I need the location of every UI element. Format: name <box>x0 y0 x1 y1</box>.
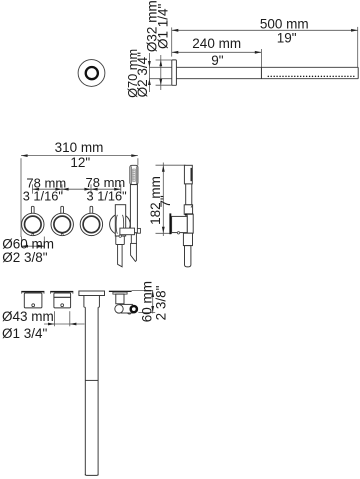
svg-text:12": 12" <box>70 155 90 170</box>
wand handle side upper <box>186 184 192 205</box>
wall plate side <box>169 213 171 234</box>
holder bottom screw bump <box>119 235 121 237</box>
wand chamfer line side <box>191 205 193 208</box>
wand spray tip front <box>131 243 137 261</box>
holder inner arcs <box>116 215 117 234</box>
78mm chain dimension line <box>33 188 121 190</box>
holder hose connector front <box>118 245 123 267</box>
extension line left (500/240 shared) <box>171 27 173 56</box>
shower arm tube <box>176 66 358 68</box>
svg-text:310 mm: 310 mm <box>55 140 104 155</box>
valve 1 flange bottom view <box>21 291 44 293</box>
wand mid section side <box>184 205 192 215</box>
svg-text:3 1/16": 3 1/16" <box>23 188 63 203</box>
tube section divider <box>260 67 262 78</box>
knob 3 inner circle <box>83 216 100 233</box>
wand handle front <box>130 185 137 233</box>
spout tube long <box>84 307 86 475</box>
dimension line 310 mm <box>21 155 138 157</box>
dia43 dimension line <box>44 323 85 325</box>
tube end cap <box>357 67 359 78</box>
valve 2 body <box>54 293 71 308</box>
holder screw bump side <box>177 232 179 234</box>
holder arm bottom view <box>120 303 134 305</box>
60mm extension line top <box>132 289 153 291</box>
holder collar bottom view <box>113 292 127 294</box>
dimension line 240 mm <box>172 51 262 53</box>
182 dimension line <box>162 163 164 237</box>
valve 2 joint line <box>54 296 71 298</box>
wand strip behind holder <box>187 214 193 233</box>
wand head spray texture <box>132 169 135 182</box>
valve 2 screw dot <box>61 304 64 307</box>
svg-text:9": 9" <box>211 53 224 68</box>
valve 2 flange bottom view <box>50 291 73 293</box>
wand head side face line <box>190 168 192 181</box>
dimension line 500 mm <box>172 29 358 31</box>
spout tube joint <box>85 379 98 381</box>
78mm arrows <box>33 188 40 191</box>
holder ball joint <box>115 305 123 313</box>
knob 2 pin <box>61 234 63 236</box>
spout flange top view <box>79 291 105 296</box>
knob 3 outer circle <box>80 213 102 235</box>
svg-text:240 mm: 240 mm <box>192 36 241 51</box>
knob 2 inner circle <box>54 216 71 233</box>
hook thick line side <box>185 213 193 215</box>
handshower wand head front <box>130 165 138 184</box>
spout tube end <box>85 474 98 475</box>
knob 2 outer circle <box>51 213 73 235</box>
holder stem bottom view <box>116 294 124 304</box>
svg-text:Ø43 mm: Ø43 mm <box>2 309 54 324</box>
shower arm wall flange side view <box>172 60 177 85</box>
knob 1 pin <box>32 234 34 236</box>
extension line left of 310 dim <box>20 158 22 237</box>
knob 1 outer circle <box>22 213 44 235</box>
holder flange bottom view <box>109 291 132 292</box>
handshower holder escutcheon circle front <box>110 214 131 235</box>
78mm extension ticks <box>32 184 34 193</box>
svg-text:500 mm: 500 mm <box>260 17 309 32</box>
182 extension line top <box>156 164 186 166</box>
svg-text:60 mm: 60 mm <box>140 281 155 322</box>
knob 2 stem <box>61 206 64 215</box>
60mm extension line bottom <box>138 312 155 314</box>
svg-text:Ø2 3/4": Ø2 3/4" <box>135 52 150 98</box>
wall flange front view outer circle <box>78 60 105 87</box>
wall flange front view inner bold circle <box>86 67 98 79</box>
holder arm bottom arc <box>127 313 131 314</box>
svg-text:Ø2 3/8": Ø2 3/8" <box>2 250 48 265</box>
spray nozzle dots <box>268 76 355 77</box>
valve 1 body <box>24 293 42 308</box>
extension line right of 240 dim / tube divider <box>260 49 262 79</box>
holder block side <box>172 216 188 232</box>
extension line right of 500 dim <box>357 27 359 67</box>
svg-text:3 1/16": 3 1/16" <box>87 188 127 203</box>
dia70 extension lines <box>156 59 172 61</box>
holder hook arm front <box>120 228 135 235</box>
dia32 dimension line vertical <box>148 53 150 92</box>
svg-text:2 3/8": 2 3/8" <box>153 285 168 320</box>
knob 1 inner circle <box>25 216 42 233</box>
182 extension line bottom <box>156 232 173 234</box>
60mm dimension line <box>152 290 154 313</box>
holder hook ring bold <box>131 306 137 312</box>
svg-text:19": 19" <box>277 30 297 45</box>
wand lower handle side <box>183 233 192 245</box>
svg-text:Ø1 3/4": Ø1 3/4" <box>2 326 48 341</box>
wand lower tube front <box>131 233 136 244</box>
wand hose end side <box>185 246 191 267</box>
wand head inner lines <box>131 166 133 184</box>
holder bracket body front <box>115 205 125 236</box>
svg-text:Ø1 1/4": Ø1 1/4" <box>155 4 170 50</box>
knob 1 stem <box>31 206 34 215</box>
knob 3 stem <box>90 206 93 215</box>
holder lower stem front <box>116 236 125 245</box>
dia60 dimension under knob 1 <box>20 237 22 248</box>
dia32 extension lines <box>149 66 171 68</box>
dia43 extension lines <box>54 311 56 326</box>
spout collar <box>83 296 85 308</box>
extension line right of 310 dim <box>137 158 139 165</box>
wand hose tab front <box>137 228 140 233</box>
valve 1 screw dot <box>32 304 35 307</box>
wand head side <box>184 165 192 184</box>
dia70 dimension line vertical <box>160 55 162 90</box>
svg-text:7": 7" <box>158 195 173 208</box>
